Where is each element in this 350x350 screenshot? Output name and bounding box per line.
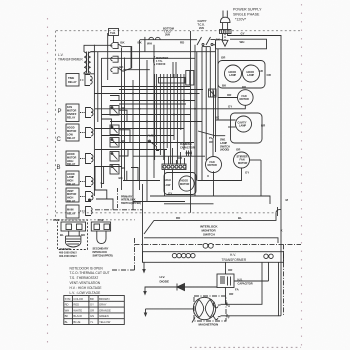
step jogs mesh xyxy=(102,96,131,157)
switch column B row3 xyxy=(110,138,119,148)
vertical bus 12 xyxy=(205,47,207,160)
vertical bus 12c xyxy=(209,47,211,89)
small connector block xyxy=(209,89,217,97)
fan motor M1 xyxy=(238,90,254,106)
cavity TCO label xyxy=(198,20,207,30)
vertical bus 4b xyxy=(132,80,134,210)
CN1 connector xyxy=(61,222,86,236)
dash-dot vert left hv xyxy=(134,238,136,270)
dash-dot vert at primary xyxy=(117,188,119,210)
hv transformer box xyxy=(143,184,284,262)
main AC wire run xyxy=(84,45,112,52)
vertical bus 6 xyxy=(146,60,148,202)
cavity lamp frame wires xyxy=(231,113,263,143)
vertical bus 3 xyxy=(101,58,103,188)
power supply label xyxy=(233,8,262,22)
comb drop wires xyxy=(160,87,184,165)
wire y201 xyxy=(133,201,185,203)
fuse FB hatched box xyxy=(220,30,232,34)
cavity TCO switches xyxy=(197,37,216,46)
connector comb CN-A xyxy=(159,74,186,87)
dotted line cn tops xyxy=(46,219,135,221)
bottom dotted border xyxy=(190,346,301,348)
motor terminal strip xyxy=(162,164,186,170)
vertical pair 11 xyxy=(217,49,219,120)
hv transformer label xyxy=(222,253,247,262)
ground arrow 2 xyxy=(143,291,147,296)
bottom TCO bumps xyxy=(149,37,160,39)
relay box 6 main relay xyxy=(66,205,79,218)
running capacitor label xyxy=(180,143,195,149)
wire top inner loop xyxy=(216,39,267,49)
primary interlock label xyxy=(121,195,141,205)
hood lamp frame xyxy=(218,61,265,89)
hv capacitor label xyxy=(238,278,253,286)
comb right box xyxy=(186,71,194,86)
magnetron right wires xyxy=(221,262,282,316)
vertical bus 1 xyxy=(93,45,95,196)
timer relay contact xyxy=(80,75,92,86)
vertical bus 3c xyxy=(124,58,126,181)
tco out link xyxy=(202,46,210,48)
hv diode label xyxy=(160,275,170,283)
switch column B row5 xyxy=(110,165,119,175)
vertical bus 12b xyxy=(213,91,215,139)
staircase wires lower left xyxy=(88,167,160,210)
right hook dotted end xyxy=(276,207,281,216)
relay box B xyxy=(66,151,79,166)
wire plug left drop xyxy=(216,34,223,40)
oven lamp switch xyxy=(198,131,225,156)
scan noise overlay xyxy=(0,0,1,1)
vertical bus 5 xyxy=(139,40,141,190)
left page dash-dot border xyxy=(47,18,49,345)
stirrer wires xyxy=(150,160,270,204)
vertical pair 9d xyxy=(156,74,158,145)
secondary interlock label xyxy=(93,248,113,258)
fan motor M3 wires xyxy=(213,171,215,196)
fan motor M3 xyxy=(206,157,222,173)
vertical bus 9e xyxy=(201,47,203,181)
hv transformer coils right xyxy=(264,254,273,258)
wire th loop xyxy=(123,47,132,72)
hv capacitor C1 xyxy=(217,274,234,288)
vertical bus 4 xyxy=(130,47,132,68)
timer relay K1 box xyxy=(66,74,79,87)
secondary interlock switch loop xyxy=(97,231,106,244)
vertical pair 9c xyxy=(154,74,156,160)
hv diode wire xyxy=(145,287,217,292)
strip riser wires xyxy=(165,148,185,196)
magnetron left wire xyxy=(146,308,194,310)
relay box C xyxy=(66,124,79,141)
monitor diagonal xyxy=(144,220,154,234)
running capacitor symbol xyxy=(186,151,193,157)
chassis dotted border left xyxy=(55,31,57,220)
switch mid contact xyxy=(111,56,118,62)
ground arrow 1 xyxy=(142,262,146,273)
mesh horizontal wires xyxy=(94,87,206,157)
magnetron dash-dot box xyxy=(194,296,226,321)
vertical bus 3b xyxy=(121,48,123,191)
monitor TS label xyxy=(156,56,168,66)
magnetron chassis tick xyxy=(192,318,195,323)
interlock monitor label xyxy=(200,225,218,237)
sensor xyxy=(66,236,81,247)
right page dotted border xyxy=(301,4,303,347)
chassis dash-dot seg left xyxy=(95,209,142,211)
vertical bus 9 xyxy=(194,45,196,196)
notes text xyxy=(70,266,110,295)
hv cap lower wire xyxy=(225,288,227,304)
monitor coil bumps xyxy=(203,243,213,248)
switch column B row2 xyxy=(110,125,119,135)
TH1 switch contact xyxy=(111,43,123,49)
contact column A row3 xyxy=(80,154,93,164)
dash-dot horiz left hv xyxy=(112,269,135,271)
contact column A row5 xyxy=(80,192,93,202)
chassis dash-dot line hv xyxy=(135,243,302,245)
mid switch cluster xyxy=(149,140,159,150)
chassis dotted line mid xyxy=(56,212,276,214)
cavity lamp wires xyxy=(216,120,236,127)
switch column B row1 xyxy=(110,106,119,116)
fan motor wires xyxy=(206,98,245,109)
hood lamp L1 xyxy=(225,65,242,82)
TH1 label xyxy=(109,29,119,43)
sensor dashed box xyxy=(58,220,88,250)
magnetron V1 xyxy=(193,297,220,319)
TH1 bus vertical xyxy=(107,33,109,80)
cavity lamp L3 xyxy=(236,116,252,132)
junction dots xyxy=(132,93,196,144)
ground arrow 3 xyxy=(144,309,148,317)
switch low contact xyxy=(111,67,123,73)
contact column A row2 xyxy=(80,128,93,138)
dash-dot vert right hv xyxy=(283,244,285,316)
hv diode D1 xyxy=(177,284,185,291)
vertical bus 5b xyxy=(144,37,146,52)
L.V. transformer label xyxy=(58,53,83,62)
hood lamp L2 xyxy=(243,65,260,82)
contact column A row6 xyxy=(80,207,92,216)
chassis dotted border top xyxy=(56,30,301,32)
wire color table xyxy=(64,296,125,325)
monitor TS brace xyxy=(154,56,155,65)
stirrer motor M2 xyxy=(234,152,250,168)
sensor note xyxy=(59,252,77,258)
contact column A row4 xyxy=(80,177,93,187)
contact column A row1 xyxy=(80,108,93,118)
wire th out xyxy=(124,69,150,71)
vertical bus 8 xyxy=(190,31,192,213)
terminal ticks xyxy=(226,303,228,318)
vertical bus 9b xyxy=(196,52,198,181)
supply down arrow xyxy=(222,34,228,47)
vertical bus 7 xyxy=(153,45,155,178)
relay box 5 xyxy=(66,188,79,203)
hood motor frame xyxy=(164,173,196,195)
power plug P1 xyxy=(220,11,230,30)
hv transformer coils left xyxy=(172,253,195,257)
relay box P xyxy=(66,104,79,122)
hood motor M4 xyxy=(179,176,194,191)
vertical pair 10 xyxy=(215,42,217,152)
switch column B row4 xyxy=(110,152,119,162)
oven lamp switch label xyxy=(220,139,230,152)
relay box 4 xyxy=(66,171,79,186)
interlock monitor wire bottom xyxy=(144,238,278,243)
TCO upper wire xyxy=(140,39,197,41)
wire y58 xyxy=(102,57,196,59)
wire top outer xyxy=(228,34,281,316)
bottom TCO label xyxy=(163,28,174,37)
long wire y51 xyxy=(91,51,216,53)
hv secondary right feed xyxy=(234,262,269,281)
table text xyxy=(65,297,111,324)
vertical bus 2 xyxy=(97,52,99,122)
comb feed pair xyxy=(173,62,176,78)
CN2 connector xyxy=(91,222,110,231)
interlock monitor wire top xyxy=(154,213,276,221)
hv cap feed wire xyxy=(225,262,227,274)
L.V. transformer T1 xyxy=(84,52,94,74)
